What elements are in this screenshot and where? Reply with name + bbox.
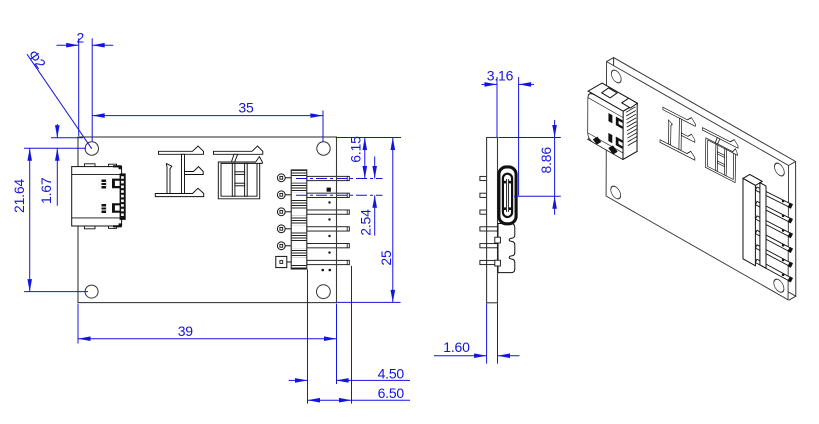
svg-text:2: 2 bbox=[77, 29, 85, 45]
svg-text:3.16: 3.16 bbox=[487, 68, 514, 84]
svg-text:6.15: 6.15 bbox=[348, 136, 364, 163]
svg-text:35: 35 bbox=[238, 100, 254, 116]
svg-text:8.86: 8.86 bbox=[538, 147, 554, 174]
svg-text:1.60: 1.60 bbox=[443, 339, 470, 355]
svg-text:1.67: 1.67 bbox=[38, 177, 54, 204]
svg-text:2.54: 2.54 bbox=[358, 209, 374, 236]
svg-text:25: 25 bbox=[378, 250, 394, 266]
svg-text:Φ2: Φ2 bbox=[25, 47, 49, 72]
svg-text:6.50: 6.50 bbox=[378, 385, 405, 401]
svg-text:21.64: 21.64 bbox=[11, 179, 27, 213]
svg-text:39: 39 bbox=[178, 323, 194, 339]
svg-text:4.50: 4.50 bbox=[378, 365, 405, 381]
